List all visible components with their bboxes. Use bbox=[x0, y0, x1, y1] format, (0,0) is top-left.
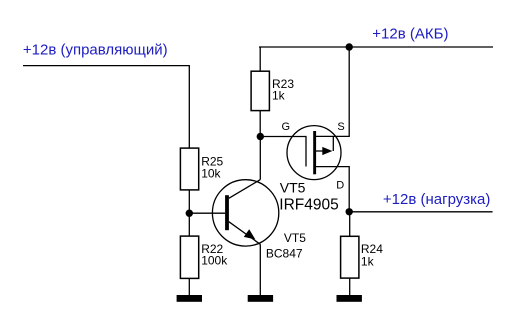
svg-text:1k: 1k bbox=[272, 89, 286, 103]
svg-text:1k: 1k bbox=[361, 255, 375, 269]
svg-text:D: D bbox=[336, 180, 344, 192]
svg-text:100k: 100k bbox=[201, 254, 228, 268]
svg-text:IRF4905: IRF4905 bbox=[279, 196, 338, 213]
svg-text:+12в (АКБ): +12в (АКБ) bbox=[372, 26, 448, 43]
svg-text:10k: 10k bbox=[201, 167, 221, 181]
svg-text:VT5: VT5 bbox=[284, 231, 306, 245]
svg-text:BC847: BC847 bbox=[266, 247, 303, 261]
svg-text:VT5: VT5 bbox=[280, 179, 306, 195]
svg-text:S: S bbox=[337, 121, 344, 133]
svg-text:G: G bbox=[282, 121, 291, 133]
svg-text:+12в (управляющий): +12в (управляющий) bbox=[23, 42, 168, 59]
svg-text:+12в (нагрузка): +12в (нагрузка) bbox=[383, 191, 490, 208]
